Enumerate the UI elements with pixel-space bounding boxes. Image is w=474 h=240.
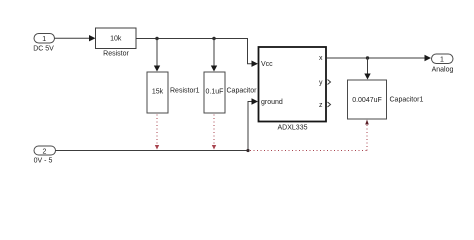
label ADXL335: [278, 125, 308, 132]
junction node at Capacitor1 tap: [366, 56, 369, 59]
svg-text:1: 1: [440, 56, 444, 63]
inport 1 (DC 5V): [34, 34, 55, 44]
wire port1 to Resistor input: [55, 37, 91, 39]
resistor Resistor1 (15k): [147, 72, 168, 113]
svg-text:0V - 5: 0V - 5: [34, 158, 53, 165]
junction node at Resistor1 tap: [155, 37, 158, 40]
svg-text:Resistor1: Resistor1: [170, 88, 200, 95]
wire (red dotted) Capacitor bottom to 0V net: [213, 115, 215, 146]
svg-text:Capacitor1: Capacitor1: [390, 97, 424, 104]
svg-text:0.1uF: 0.1uF: [206, 89, 224, 96]
svg-text:ADXL335: ADXL335: [278, 125, 308, 132]
label Resistor1: [170, 88, 200, 95]
svg-text:DC 5V: DC 5V: [33, 46, 54, 53]
svg-text:1: 1: [42, 36, 46, 43]
wire (red dotted) Resistor1 bottom to 0V net: [156, 115, 158, 146]
wire (red dotted) up to Capacitor1 bottom: [366, 124, 368, 151]
svg-text:Resistor: Resistor: [103, 51, 129, 58]
arrowhead (dark red) into Capacitor1 bottom: [365, 120, 369, 125]
wire Resistor output to ADXL335 Vcc: [136, 39, 252, 64]
junction node at 0V net corner: [246, 149, 249, 152]
wire down to Capacitor1: [367, 58, 369, 74]
label Resistor: [103, 51, 129, 58]
label 0V - 5: [34, 158, 53, 165]
port mark output z: [328, 102, 331, 107]
arrowhead into Capacitor1: [364, 74, 370, 80]
inport 2 (0V - 5): [34, 146, 56, 155]
outport 1 (Analog): [432, 54, 454, 64]
junction node at Capacitor tap: [212, 37, 215, 40]
label DC 5V: [33, 46, 54, 53]
op-amp U1 ADXL335 block: [259, 47, 327, 122]
wire port2 to ground net: [56, 102, 253, 151]
svg-text:0.0047uF: 0.0047uF: [352, 97, 382, 104]
capacitor Capacitor1 (0.0047uF): [348, 80, 387, 119]
label Capacitor1: [390, 97, 424, 104]
arrowhead into Resistor1: [154, 66, 160, 72]
svg-text:Capacitor: Capacitor: [227, 88, 258, 95]
arrowhead into Resistor: [89, 35, 96, 41]
svg-text:15k: 15k: [152, 89, 164, 96]
arrowhead into ground pin: [252, 98, 259, 104]
svg-text:ground: ground: [261, 99, 283, 106]
svg-text:2: 2: [43, 148, 47, 155]
capacitor Capacitor (0.1uF): [204, 72, 225, 113]
resistor Resistor (10k): [96, 28, 137, 49]
wire down to Capacitor: [213, 39, 215, 67]
label Analog: [432, 67, 454, 74]
svg-text:Vcc: Vcc: [261, 61, 273, 68]
port mark output y: [328, 80, 331, 85]
svg-text:10k: 10k: [110, 36, 122, 43]
arrowhead into Analog port: [425, 55, 432, 61]
svg-text:x: x: [319, 55, 323, 62]
wire (red dotted) 0V net horizontal run to Capacitor1: [250, 150, 367, 152]
svg-text:y: y: [319, 79, 323, 86]
arrowhead into Vcc pin: [252, 61, 259, 67]
wire ADXL335 x output to Analog: [327, 57, 426, 59]
label Capacitor: [227, 88, 258, 95]
svg-text:Analog: Analog: [432, 67, 454, 74]
svg-text:z: z: [319, 102, 323, 109]
wire down to Resistor1: [156, 39, 158, 67]
arrowhead (red) onto 0V net below Resistor1: [155, 145, 159, 150]
arrowhead (red) onto 0V net below Capacitor: [212, 145, 216, 150]
arrowhead into Capacitor: [211, 66, 217, 72]
